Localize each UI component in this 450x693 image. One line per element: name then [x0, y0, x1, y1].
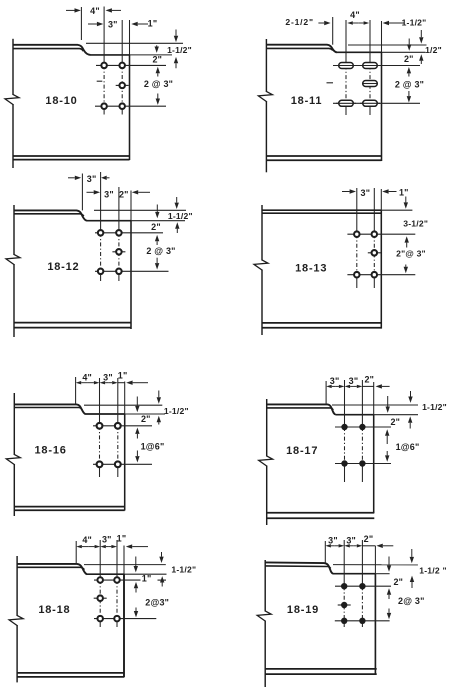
- 18-17 gauge line column 1: [344, 380, 346, 427]
- 18-16 down arrow for 1@6in: [136, 451, 138, 457]
- svg-text:2": 2": [404, 54, 414, 64]
- 18-10 dimension 1in arrow and text: [138, 23, 148, 25]
- 18-16 top-of-beam extension line: [84, 404, 162, 406]
- 18-19 gauge line column 2: [361, 540, 363, 586]
- svg-text:2": 2": [119, 190, 129, 200]
- 18-11 gauge line column 1: [345, 20, 347, 66]
- 18-17 down arrow for 1-1/2in: [410, 391, 412, 397]
- 18-13 up arrow for 3-1/2in: [406, 243, 408, 248]
- 18-18 down arrow for 1-1/2in: [161, 552, 163, 557]
- svg-text:2": 2": [151, 222, 161, 232]
- 18-16 beam end line: [124, 382, 126, 415]
- 18-12 dimension row B 3in and 2in: [87, 191, 94, 193]
- 18-16 cope bottom line: [86, 413, 125, 415]
- 18-16 top flange outer line with cope curve: [14, 404, 85, 414]
- 18-19 cope line extension: [375, 573, 389, 575]
- 18-11 slotted hole row3 col2: [363, 100, 378, 106]
- 18-19 chain dimension line 3in / 3in / 2in: [331, 545, 335, 547]
- 18-19 bolt row1 col1: [341, 583, 347, 589]
- 18-13 beam end line: [380, 189, 382, 210]
- 18-10 up arrow for 2@3in: [157, 73, 159, 76]
- 18-19 up arrow for 2@3in: [388, 595, 390, 599]
- 18-11 top flange outer line with cope curve: [266, 45, 337, 53]
- svg-text:2@3": 2@3": [145, 598, 169, 608]
- 18-10 extension line for 4in dimension: [80, 7, 82, 40]
- 18-10 up arrow for 1-1/2in: [175, 63, 177, 68]
- svg-text:2 @ 3": 2 @ 3": [144, 79, 173, 89]
- 18-12 beam end line: [130, 191, 132, 221]
- svg-text:1": 1": [117, 534, 127, 544]
- svg-text:2": 2": [141, 414, 151, 424]
- 18-18 up arrow for 2@3in: [135, 588, 137, 592]
- 18-11 bolt row 3 line: [333, 102, 420, 104]
- 18-12 gauge line column 2: [118, 187, 120, 233]
- 18-13 bolt row1 col2: [372, 231, 378, 237]
- svg-text:18-19: 18-19: [287, 604, 319, 616]
- 18-18 top flange outer line with cope curve: [17, 564, 87, 574]
- 18-13 bottom flange lines: [262, 322, 381, 324]
- svg-text:2": 2": [390, 417, 400, 427]
- svg-text:1-1/2": 1-1/2": [171, 565, 196, 575]
- 18-17 bolt row1 col2: [359, 424, 365, 430]
- svg-text:2-1/2": 2-1/2": [285, 17, 313, 27]
- 18-17 bolt row 2 line: [335, 463, 391, 465]
- svg-text:1/2": 1/2": [425, 45, 442, 55]
- svg-text:18-17: 18-17: [286, 445, 318, 457]
- svg-text:18-16: 18-16: [35, 445, 67, 457]
- 18-12 down arrow for 2@3in: [156, 258, 158, 263]
- svg-text:3": 3": [349, 376, 359, 386]
- 18-12 dimension 3in row A: [68, 177, 75, 179]
- svg-text:1@6": 1@6": [396, 442, 420, 452]
- 18-19 bolt row1 col2: [359, 583, 365, 589]
- svg-text:1-1/2": 1-1/2": [402, 17, 427, 27]
- 18-10 down arrow for 1-1/2in: [175, 30, 177, 36]
- 18-18 gauge line column 2: [116, 540, 118, 580]
- svg-text:3": 3": [330, 376, 340, 386]
- 18-12 top-of-beam extension line: [94, 209, 186, 211]
- 18-17 up arrow for 1@6in: [386, 436, 388, 444]
- 18-11 down arrow for 1/2in: [420, 30, 422, 37]
- svg-text:18-10: 18-10: [45, 95, 77, 107]
- svg-text:1": 1": [148, 19, 158, 29]
- 18-13 top-of-beam extension line: [381, 209, 412, 211]
- 18-19 top flange inner line: [265, 566, 330, 569]
- 18-19 extension line: [324, 541, 326, 563]
- svg-text:4": 4": [350, 10, 360, 20]
- svg-text:3": 3": [108, 20, 118, 30]
- svg-text:2 @ 3": 2 @ 3": [395, 80, 424, 90]
- 18-16 bolt row1 col1: [97, 423, 103, 429]
- svg-text:1": 1": [118, 370, 128, 380]
- 18-10 bolt row1 col1: [101, 63, 107, 69]
- svg-text:4": 4": [82, 372, 92, 382]
- 18-18 gauge line column 1: [99, 540, 101, 580]
- 18-11 dimension 1-1/2in arrow and text: [389, 22, 404, 24]
- 18-19 top flange outer line with cope curve: [265, 562, 333, 573]
- 18-19 bolt row 1 line: [335, 585, 391, 587]
- 18-17 chain dimension line 3in / 3in / 2in: [332, 385, 336, 387]
- 18-17 top flange inner line: [267, 408, 334, 410]
- svg-text:1-1/2": 1-1/2": [168, 211, 193, 221]
- detail 18-19 beam left edge with break: [264, 560, 266, 612]
- 18-16 gauge line column 2: [117, 378, 119, 426]
- 18-13 bolt row 3 line: [347, 274, 415, 276]
- 18-18 bolt row 3 line: [94, 618, 156, 620]
- 18-10 centre mark dash on column 1: [97, 80, 103, 82]
- 18-18 top-of-beam extension line: [84, 564, 166, 566]
- 18-17 cope line extension: [374, 414, 418, 416]
- 18-17 gauge line column 2: [361, 380, 363, 427]
- 18-11 slotted hole row2 col2: [363, 81, 378, 87]
- 18-18 bolt row1 col1: [97, 577, 103, 583]
- 18-19 cope bottom line: [333, 573, 375, 575]
- svg-text:1@6": 1@6": [141, 442, 165, 452]
- 18-10 top flange outer line with cope curve: [13, 45, 91, 55]
- 18-19 down arrow for 2in dimension: [388, 557, 390, 566]
- 18-12 gauge line column 1: [100, 172, 102, 233]
- 18-16 top flange inner line: [14, 408, 82, 410]
- 18-12 top flange inner line: [14, 214, 84, 216]
- detail 18-18 beam left edge with break: [16, 556, 18, 616]
- 18-10 top-of-beam extension line: [86, 42, 183, 44]
- 18-11 up arrow for 1/2in: [420, 61, 422, 64]
- 18-13 gauge line column 2: [373, 188, 375, 234]
- 18-10 bolt row3 col2: [119, 103, 125, 109]
- 18-12 up arrow for 1-1/2in: [176, 229, 178, 233]
- 18-17 bolt row2 col1: [341, 460, 347, 466]
- svg-text:2": 2": [152, 55, 162, 65]
- 18-16 cope line extension: [125, 413, 165, 415]
- svg-text:1-1/2": 1-1/2": [164, 406, 189, 416]
- svg-text:2": 2": [364, 534, 374, 544]
- 18-18 bottom flange lines: [17, 672, 124, 674]
- detail 18-10 beam left edge with break: [12, 39, 14, 95]
- 18-10 down arrow for 2@3in: [157, 94, 159, 99]
- 18-12 bolt row 3 line: [95, 270, 169, 272]
- 18-10 bolt row2 col2: [116, 84, 129, 86]
- svg-text:3": 3": [328, 536, 338, 546]
- detail 18-12 beam left edge with break: [13, 205, 15, 255]
- 18-13 bolt row3 col1: [354, 272, 360, 278]
- 18-12 bolt row3 col1: [98, 269, 104, 275]
- svg-text:2@ 3": 2@ 3": [398, 596, 425, 606]
- 18-11 top flange inner line: [266, 48, 332, 50]
- 18-17 bottom flange lines: [267, 512, 375, 514]
- 18-13 top flange lines (no cope): [262, 209, 381, 211]
- 18-11 centre mark dash on column 1: [327, 82, 334, 84]
- 18-11 down arrow for 2@3in: [408, 91, 410, 96]
- 18-10 beam end line: [129, 20, 131, 55]
- svg-text:4": 4": [82, 535, 92, 545]
- 18-17 bolt row2 col2: [359, 460, 365, 466]
- 18-11 slotted hole row3 col1: [339, 100, 354, 106]
- 18-12 bolt row3 col2: [116, 269, 122, 275]
- 18-10 bolt row3 col1: [101, 103, 107, 109]
- 18-13 down arrow for 2@3in: [405, 265, 407, 267]
- 18-10 bolt gauge line column 2: [121, 20, 123, 65]
- detail 18-11 beam left edge with break: [265, 39, 267, 92]
- 18-18 up arrow for 1-1/2in: [161, 583, 163, 587]
- 18-11 bolt row 1 line: [333, 65, 420, 67]
- svg-text:18-13: 18-13: [295, 263, 327, 275]
- 18-11 slotted hole row1 col1: [339, 63, 354, 69]
- 18-19 down arrow for 1-1/2in: [411, 549, 413, 557]
- 18-16 bolt row 1 line: [93, 425, 152, 427]
- 18-19 beam end line: [374, 546, 376, 574]
- 18-17 up arrow for 1-1/2in: [409, 423, 411, 429]
- 18-11 gauge line column 2: [369, 20, 371, 66]
- 18-12 bolt row2 col2: [112, 251, 125, 253]
- 18-16 up arrow for 1-1/2in: [158, 422, 160, 424]
- 18-19 gauge line column 1: [343, 540, 345, 586]
- 18-12 down arrow for 2in dimension: [156, 205, 158, 212]
- 18-16 bolt row 2 line: [93, 463, 152, 465]
- 18-13 gauge line column 1: [356, 188, 358, 234]
- svg-text:3": 3": [102, 535, 112, 545]
- 18-12 bolt row 1 line: [95, 232, 163, 234]
- 18-19 top-of-beam extension line: [333, 564, 418, 566]
- svg-text:3": 3": [87, 174, 97, 184]
- 18-17 down arrow for 2in dimension: [387, 396, 389, 407]
- 18-19 bolt row3 col2: [359, 618, 365, 624]
- 18-10 dimension 3in arrow and text: [88, 23, 97, 25]
- svg-text:18-12: 18-12: [47, 261, 79, 273]
- 18-16 down arrow for 2in dimension: [136, 397, 138, 406]
- 18-11 up arrow for 2@3in: [408, 73, 410, 76]
- svg-text:3": 3": [103, 373, 113, 383]
- 18-12 down arrow for 1-1/2in: [176, 197, 178, 203]
- 18-18 down arrow for 2@3in: [135, 608, 137, 612]
- svg-text:2": 2": [393, 577, 403, 587]
- 18-17 bolt row 1 line: [335, 426, 391, 428]
- 18-12 cope line extension: [131, 220, 185, 222]
- 18-19 bolt row 3 line: [335, 620, 390, 622]
- 18-18 bolt row1 col2: [114, 577, 120, 583]
- 18-17 top flange outer line with cope curve: [267, 404, 336, 414]
- 18-18 beam end line (heavy): [123, 546, 125, 575]
- 18-18 down arrow for 1in dimension: [135, 557, 137, 567]
- 18-16 down arrow for 1-1/2in: [158, 391, 160, 398]
- 18-16 bolt row2 col1: [97, 461, 103, 467]
- 18-19 down arrow for 2@3in: [388, 609, 390, 613]
- 18-17 extension line: [325, 381, 327, 404]
- svg-text:3": 3": [346, 536, 356, 546]
- 18-11 beam end line: [381, 21, 383, 52]
- 18-13 bolt row3 col2: [372, 272, 378, 278]
- 18-16 gauge line column 1: [99, 378, 101, 426]
- 18-19 up arrow for 1-1/2in: [411, 582, 413, 588]
- 18-11 bottom flange lines: [266, 155, 381, 157]
- svg-text:3-1/2": 3-1/2": [403, 219, 428, 229]
- 18-12 cope bottom line: [87, 220, 131, 222]
- 18-17 down arrow for 1@6in: [386, 451, 388, 455]
- 18-16 chain dimension line 4in / 3in / 1in: [81, 382, 87, 384]
- 18-16 bolt row1 col2: [115, 423, 121, 429]
- 18-10 cope bottom line: [91, 54, 130, 56]
- svg-text:18-18: 18-18: [38, 604, 70, 616]
- svg-text:1": 1": [142, 574, 152, 584]
- 18-18 extension line: [75, 541, 77, 564]
- detail 18-16 beam left edge with break: [13, 393, 15, 455]
- 18-10 bottom flange lines: [13, 155, 130, 157]
- 18-13 dimension 3in arrow and text: [342, 191, 350, 193]
- 18-18 top flange inner line: [17, 567, 84, 569]
- 18-10 cope line extension: [130, 54, 173, 56]
- 18-12 bolt row1 col2: [116, 230, 122, 236]
- 18-10 bolt gauge line column 1: [103, 7, 105, 66]
- 18-18 bolt row3 col2: [114, 616, 120, 622]
- 18-13 bolt row 1 line: [347, 233, 415, 235]
- detail 18-13 beam left edge with break: [261, 205, 263, 261]
- 18-10 down arrow for 2in dimension: [156, 45, 158, 46]
- svg-text:2": 2": [364, 375, 374, 385]
- 18-11 slotted hole row1 col2: [363, 63, 378, 69]
- 18-12 bolt row1 col1: [98, 230, 104, 236]
- svg-text:1-1/2 ": 1-1/2 ": [419, 565, 446, 575]
- 18-12 top flange outer line with cope curve: [14, 210, 87, 220]
- 18-10 top flange inner line: [13, 49, 83, 52]
- 18-11 down arrow for 2in: [408, 39, 410, 45]
- 18-16 extension line: [75, 377, 77, 404]
- 18-17 bolt row1 col1: [341, 424, 347, 430]
- svg-text:18-11: 18-11: [291, 95, 323, 107]
- 18-13 down arrow for 3-1/2in: [405, 197, 407, 203]
- 18-19 bolt row3 col1: [341, 618, 347, 624]
- svg-text:3": 3": [104, 190, 114, 200]
- 18-18 bolt row 1 line: [94, 579, 141, 581]
- 18-12 up arrow for 2@3in: [156, 241, 158, 245]
- 18-17 top-of-beam extension line: [332, 404, 418, 406]
- 18-11 extension line: [332, 17, 334, 45]
- 18-12 extension line: [81, 174, 83, 211]
- svg-text:2"@ 3": 2"@ 3": [396, 249, 426, 259]
- 18-12 bottom flange lines: [14, 322, 131, 324]
- svg-text:2 @ 3": 2 @ 3": [146, 246, 175, 256]
- 18-11 cope bottom line: [337, 51, 382, 53]
- 18-10 bolt row 1 line: [96, 64, 166, 66]
- 18-19 bolt row2 col1: [338, 604, 351, 606]
- 18-18 cope line extension: [124, 573, 167, 575]
- 18-19 bottom flange lines: [265, 668, 377, 670]
- svg-text:1": 1": [399, 188, 409, 198]
- 18-16 up arrow for 1@6in: [136, 434, 138, 439]
- 18-10 bolt row 3 line: [95, 105, 166, 107]
- 18-16 bolt row2 col2: [115, 461, 121, 467]
- 18-17 beam end line: [373, 382, 375, 415]
- svg-text:4": 4": [90, 6, 100, 16]
- svg-text:1-1/2": 1-1/2": [422, 402, 447, 412]
- 18-18 cope bottom line: [87, 573, 124, 575]
- 18-11 cope line extension: [382, 51, 426, 53]
- 18-13 dimension 1in arrow and text: [389, 191, 397, 193]
- detail 18-17 beam left edge with break: [266, 399, 268, 457]
- 18-18 bolt row2 col1: [94, 597, 107, 599]
- 18-11 top-of-beam extension line: [348, 44, 427, 46]
- 18-13 bolt row1 col1: [354, 231, 360, 237]
- 18-16 bottom flange lines: [14, 506, 124, 508]
- 18-11 dimension 4in line with arrows and text: [353, 22, 358, 24]
- svg-text:1-1/2": 1-1/2": [167, 45, 192, 55]
- 18-10 bolt row1 col2: [119, 63, 125, 69]
- 18-13 bolt row2 col2: [368, 252, 381, 254]
- 18-18 bolt row3 col1: [97, 616, 103, 622]
- 18-10 dimension 4in arrows and text: [66, 9, 75, 11]
- 18-18 chain dimension line 4in / 3in / 1in: [82, 546, 88, 548]
- 18-17 cope bottom line: [336, 414, 374, 416]
- svg-text:3": 3": [361, 188, 371, 198]
